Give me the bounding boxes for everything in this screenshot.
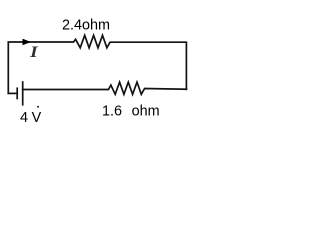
svg-text:2.4ohm: 2.4ohm [62,17,110,33]
svg-text:1.6 ohm: 1.6 ohm [102,104,160,120]
svg-text:I: I [29,43,39,61]
svg-text:4 V: 4 V [20,110,42,126]
